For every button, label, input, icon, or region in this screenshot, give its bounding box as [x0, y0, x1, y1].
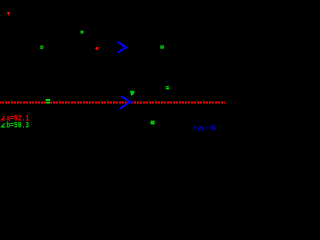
angle symbol (red readout) [2, 116, 6, 120]
red particle P2 [95, 47, 99, 50]
dashed red axis line [0, 102, 225, 104]
green marker G3 (two bars) [160, 45, 164, 48]
green marker G5 (two bars, on the axis) [45, 99, 50, 104]
green marker G4 (two bars) [166, 86, 169, 89]
green square G6 (below axis, right) [151, 121, 155, 125]
green square G1 [81, 31, 84, 34]
blue chevron agent A2 (on the axis) [121, 97, 132, 109]
red particle P1 (top-left) [7, 12, 11, 16]
blue chevron agent A1 (upper) [118, 42, 128, 52]
angle symbol (green readout) [2, 123, 6, 127]
svg-text:b=59.3: b=59.3 [6, 121, 29, 131]
green marker G2 (two bars) [40, 46, 43, 49]
svg-text:X img / 70%: X img / 70% [193, 125, 216, 132]
green triangle T1 (above axis) [130, 91, 135, 96]
